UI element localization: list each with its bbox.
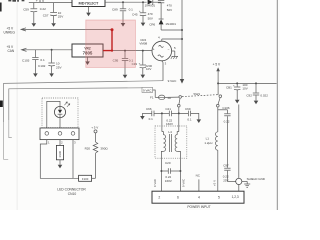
- wire CB1 down to shield circle: [238, 105, 240, 179]
- resistor R20 390 with +5V terminal: [85, 126, 109, 179]
- capacitor C103: [22, 50, 45, 77]
- capacitor C95: [113, 50, 134, 79]
- svg-text:0.1: 0.1: [149, 117, 154, 121]
- ferrite F100: [79, 175, 96, 181]
- svg-text:+ 5 V: + 5 V: [213, 63, 221, 67]
- svg-text:VM08: VM08: [139, 41, 147, 45]
- capacitor C66: [151, 111, 153, 117]
- label LED CONNECTOR CN10: [57, 187, 86, 196]
- svg-text:9 VAC: 9 VAC: [153, 179, 157, 187]
- regulator U2 MD7912CT: [72, 0, 105, 16]
- net +5V UNREG arrow and wire: [4, 27, 113, 35]
- svg-text:25V: 25V: [223, 179, 228, 183]
- svg-text:9 VAC: 9 VAC: [182, 179, 186, 187]
- capacitor C19 2200/10V: [132, 50, 153, 79]
- svg-text:C102: C102: [38, 64, 46, 68]
- svg-text:470: 470: [167, 3, 172, 7]
- svg-text:CR6: CR6: [149, 22, 155, 26]
- pin 5 chassis ground: [172, 50, 175, 52]
- svg-text:LED CONNECTOR: LED CONNECTOR: [57, 187, 86, 191]
- capacitor C106 0.22: [218, 106, 231, 168]
- wire LED anode loop to pin1: [47, 101, 60, 131]
- capacitor C89: [112, 1, 133, 26]
- svg-text:CN10: CN10: [68, 192, 77, 196]
- svg-text:CB1: CB1: [226, 86, 232, 90]
- capacitor C57: [43, 3, 64, 27]
- net +5V right with up arrow: [213, 63, 221, 95]
- switch SW1: [178, 92, 222, 114]
- svg-text:SHIELD GND: SHIELD GND: [247, 177, 266, 181]
- svg-text:0.22: 0.22: [224, 120, 230, 124]
- wire from MD7912CT to right: [105, 1, 147, 3]
- svg-text:L1: L1: [206, 137, 210, 141]
- core: [168, 134, 170, 152]
- net +5V CAN arrow and wire: [7, 45, 73, 53]
- capacitor C45 470/50V: [132, 1, 153, 26]
- wire A 9VAC long left loop: [4, 81, 163, 160]
- pin 3 lead down: [162, 61, 163, 63]
- shield ground terminal: [236, 177, 266, 191]
- svg-text:10V: 10V: [242, 86, 247, 90]
- svg-text:C66: C66: [146, 107, 152, 111]
- connector CN10: [40, 128, 79, 145]
- LED D1: [54, 102, 70, 118]
- svg-text:1.2μH: 1.2μH: [204, 141, 212, 145]
- wire rail161 to rail182: [161, 29, 182, 31]
- wire LED cathode to pin2: [59, 118, 61, 132]
- capacitor C102: [38, 49, 62, 77]
- svg-text:R100: R100: [58, 150, 62, 157]
- svg-text:2: 2: [158, 196, 160, 200]
- pink highlight annotation: [86, 20, 136, 67]
- right winding: [178, 113, 180, 131]
- diode CR6 1N4001: [149, 19, 176, 30]
- wire +5V branch to right edge: [218, 82, 277, 84]
- svg-text:0.22: 0.22: [40, 7, 46, 11]
- svg-text:C92: C92: [246, 93, 252, 97]
- capacitor CB1 100/10V: [226, 82, 248, 103]
- wire pin1 down to F100: [40, 140, 73, 179]
- svg-text:50V: 50V: [167, 8, 172, 12]
- svg-text:+: +: [153, 48, 155, 52]
- svg-text:C20: C20: [165, 161, 171, 165]
- svg-text:25V: 25V: [56, 65, 62, 69]
- capacitor C97 0.22/25V: [223, 164, 236, 183]
- capacitor C20 0.22/160V series between columns: [160, 161, 181, 183]
- svg-text:160V: 160V: [166, 122, 173, 126]
- fuse F1 1A: [150, 95, 179, 100]
- svg-text:C21: C21: [165, 107, 171, 111]
- wire +5V top rail: [29, 2, 72, 4]
- red highlighted wire: [103, 28, 114, 51]
- svg-text:50V: 50V: [148, 16, 153, 20]
- svg-text:1N4001: 1N4001: [165, 22, 176, 26]
- svg-text:4: 4: [198, 196, 200, 200]
- inductor L1 1.2uH: [204, 107, 217, 191]
- bridge rectifier CR4 VM08: [139, 35, 182, 80]
- bus with series caps C66 C21 C69: [140, 107, 201, 126]
- svg-text:1A: 1A: [167, 96, 171, 100]
- capacitor C59: [23, 3, 46, 27]
- svg-text:6: 6: [177, 196, 179, 200]
- svg-text:390Ω: 390Ω: [100, 146, 108, 150]
- capacitor 470/50V on rail161: [158, 1, 172, 19]
- svg-text:C97: C97: [223, 164, 229, 168]
- svg-text:SW1: SW1: [193, 92, 200, 96]
- wire rail 182 with down arrow 9VAC: [168, 0, 185, 84]
- svg-text:POWER INPUT: POWER INPUT: [187, 205, 210, 209]
- pin 4 lead: [161, 39, 163, 41]
- svg-text:9 VAC: 9 VAC: [168, 79, 177, 83]
- svg-text:R20: R20: [85, 146, 91, 150]
- svg-text:0.1: 0.1: [129, 7, 134, 11]
- svg-text:UNREG: UNREG: [4, 31, 16, 35]
- wire bridge+ to 7805 input: [112, 50, 152, 52]
- svg-text:+5 V: +5 V: [212, 180, 216, 186]
- wire B 9VAC second left loop: [9, 88, 142, 138]
- svg-text:10V: 10V: [146, 67, 151, 71]
- regulator VR2 7805: [72, 44, 103, 65]
- svg-text:C57: C57: [43, 13, 49, 17]
- svg-text:F1: F1: [150, 95, 154, 99]
- svg-text:0.1: 0.1: [187, 117, 192, 121]
- svg-text:+ 5 V: + 5 V: [91, 126, 98, 130]
- svg-text:L4: L4: [168, 130, 172, 134]
- svg-text:F100: F100: [82, 177, 89, 181]
- left end down arrow: [142, 112, 151, 114]
- capacitor C69: [187, 111, 189, 117]
- capacitor C21: [168, 111, 170, 117]
- svg-text:9 VAC: 9 VAC: [143, 88, 152, 92]
- svg-text:C89: C89: [112, 7, 118, 11]
- svg-text:1N4001: 1N4001: [145, 4, 156, 8]
- net label +5V cut at top edge: [8, 0, 45, 3]
- right end down arrow: [191, 113, 199, 119]
- svg-text:C45: C45: [132, 12, 138, 16]
- svg-text:−: −: [168, 48, 170, 52]
- wire pin3 down to F100: [73, 140, 79, 179]
- transformer L4 dashed box: [155, 113, 187, 191]
- net label 9VAC boxed: [142, 87, 155, 97]
- wire pin3 stub up: [72, 128, 74, 132]
- NC stub: [196, 174, 201, 192]
- left winding: [161, 113, 163, 131]
- diode CR5 1N4001 on top wire: [145, 0, 162, 8]
- svg-text:C103: C103: [22, 58, 30, 62]
- svg-text:C106: C106: [222, 106, 230, 110]
- svg-text:CAN: CAN: [8, 49, 15, 53]
- capacitor C92 0.022: [246, 82, 268, 104]
- connector POWER INPUT: [152, 179, 244, 209]
- svg-text:0.1: 0.1: [40, 58, 45, 62]
- svg-text:25V: 25V: [58, 15, 64, 19]
- LED subcircuit dashed box: [42, 98, 78, 128]
- svg-text:160V: 160V: [165, 179, 172, 183]
- svg-text:0.022: 0.022: [260, 93, 268, 97]
- svg-text:C59: C59: [23, 8, 29, 12]
- svg-text:C69: C69: [185, 107, 191, 111]
- svg-text:MD7912CT: MD7912CT: [79, 1, 100, 6]
- svg-text:+5 V: +5 V: [7, 45, 15, 49]
- resistor R100: [56, 140, 63, 169]
- svg-text:1,2,3: 1,2,3: [232, 195, 239, 199]
- svg-text:5: 5: [218, 196, 220, 200]
